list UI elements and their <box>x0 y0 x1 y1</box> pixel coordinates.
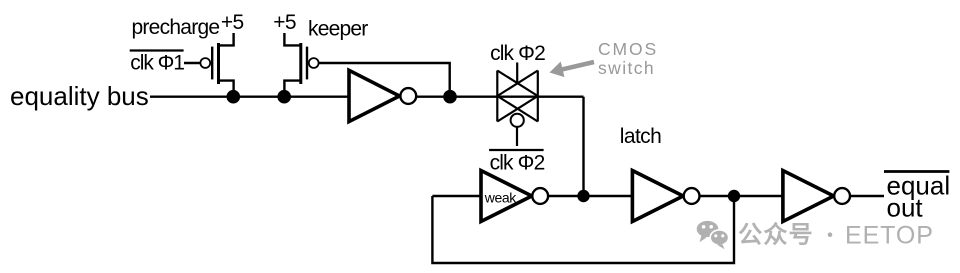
wire latch node B <box>700 195 783 197</box>
watermark dot <box>828 232 833 237</box>
wire equality bus <box>150 95 584 97</box>
node junction weak output / switch <box>577 190 589 202</box>
inverter U4 <box>783 171 850 222</box>
node junction latch feedback tap <box>728 190 740 202</box>
watermark wechat icon <box>697 221 729 249</box>
char 众 <box>765 222 787 244</box>
transistor keeper PMOS <box>284 33 318 97</box>
wire weak inverter input <box>432 195 481 197</box>
svg-text:clk Φ2: clk Φ2 <box>490 152 545 175</box>
CMOS switch transmission gate <box>497 63 538 147</box>
wire CMOS switch output drop to latch <box>582 97 584 196</box>
svg-text:latch: latch <box>620 125 661 148</box>
wire latch feedback loop <box>432 196 734 263</box>
char 号 <box>790 224 811 245</box>
node junction bus-keeper <box>277 90 291 104</box>
transistor precharge PMOS <box>200 33 233 97</box>
svg-text:+5: +5 <box>273 11 296 34</box>
inverter U3 <box>632 171 699 222</box>
label CMOS switch gray <box>598 39 658 78</box>
svg-text:clk Φ1: clk Φ1 <box>130 52 184 75</box>
annotation arrow CMOS switch <box>550 60 595 77</box>
wire latch node A <box>548 195 632 197</box>
svg-text:equality bus: equality bus <box>10 81 149 111</box>
char 公 <box>739 223 761 245</box>
svg-text:+5: +5 <box>221 11 244 34</box>
inverter weak U2 <box>481 171 548 222</box>
wire clk phi1 gate lead <box>184 62 201 64</box>
label clk phi2 bottom with overline <box>489 150 544 175</box>
label equal out with overline <box>884 171 950 223</box>
node junction bus-precharge <box>227 90 241 104</box>
inverter U1 <box>349 70 416 121</box>
watermark text 公众号 <box>739 222 811 244</box>
wire keeper gate feedback from inverter output <box>318 63 449 97</box>
label clk phi1 with overline <box>130 51 185 75</box>
svg-text:out: out <box>887 192 924 222</box>
svg-text:switch: switch <box>598 58 655 78</box>
svg-text:precharge: precharge <box>132 16 220 39</box>
svg-text:EETOP: EETOP <box>845 222 934 250</box>
svg-text:clk Φ2: clk Φ2 <box>490 42 545 65</box>
wire output <box>850 195 884 197</box>
svg-text:keeper: keeper <box>308 18 368 41</box>
svg-text:weak: weak <box>484 190 517 206</box>
svg-text:CMOS: CMOS <box>598 39 658 59</box>
node junction inverter output <box>443 90 457 104</box>
